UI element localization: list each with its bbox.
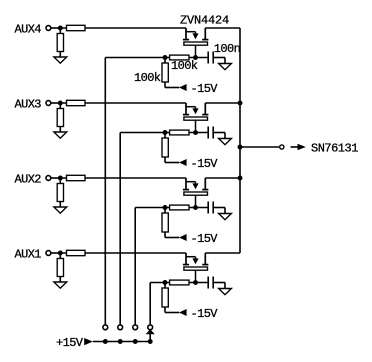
junction bus/Q2 drain bbox=[238, 101, 243, 106]
junction rail corner bbox=[148, 339, 153, 344]
wire bbox=[51, 252, 60, 254]
output terminal bbox=[280, 145, 284, 149]
power -15V arrow bbox=[179, 309, 187, 316]
wire control feed AUX3 bbox=[119, 133, 121, 325]
wire control feed AUX1 bbox=[149, 283, 151, 325]
junction AUX3 input node bbox=[58, 101, 63, 106]
capacitor C1 (gate 100n) bbox=[208, 52, 225, 64]
capacitor C4 (gate 100n) bbox=[208, 277, 225, 289]
junction gate-divider node bbox=[163, 130, 168, 135]
svg-text:100n: 100n bbox=[214, 42, 241, 56]
svg-text:100k: 100k bbox=[134, 71, 161, 85]
wire bbox=[205, 102, 240, 104]
junction AUX1 input node bbox=[58, 251, 63, 256]
wire bbox=[60, 102, 186, 104]
input terminal AUX2 bbox=[46, 176, 51, 181]
resistor R11 (gate 100k) bbox=[170, 130, 189, 135]
resistor R13 (gate 100k) bbox=[170, 205, 189, 210]
svg-text:SN76131: SN76131 bbox=[311, 141, 358, 155]
svg-text:AUX2: AUX2 bbox=[15, 173, 42, 187]
junction bus/output bbox=[238, 145, 243, 150]
junction bus/Q3 drain bbox=[238, 176, 243, 181]
wire bbox=[205, 252, 240, 254]
wire bbox=[60, 177, 186, 179]
wire bbox=[120, 132, 208, 134]
svg-text:AUX4: AUX4 bbox=[15, 23, 42, 37]
input terminal AUX1 bbox=[46, 251, 51, 256]
svg-text:AUX3: AUX3 bbox=[15, 98, 42, 112]
wire bbox=[135, 207, 208, 209]
svg-text:AUX1: AUX1 bbox=[15, 248, 42, 262]
resistor R2 (AUX4 shunt) bbox=[57, 28, 63, 57]
ground bbox=[219, 214, 232, 220]
resistor R7 (AUX1 series) bbox=[67, 250, 86, 255]
junction gate-divider node bbox=[163, 55, 168, 60]
ground bbox=[219, 139, 232, 145]
resistor R10 (pull 100k) bbox=[162, 58, 179, 88]
node AUX1 label bbox=[15, 248, 42, 262]
node SN76131 label bbox=[311, 141, 358, 155]
input terminal AUX4 bbox=[46, 26, 51, 31]
wire rail to AUX1 control plug bbox=[146, 329, 155, 341]
terminal control AUX1 bbox=[148, 325, 153, 330]
power -15V arrow bbox=[179, 159, 187, 166]
transistor Q3 (ZVN4424 N-MOSFET) bbox=[183, 178, 209, 208]
transistor Q4 (ZVN4424 N-MOSFET) bbox=[183, 253, 209, 283]
junction Q4 gate node bbox=[193, 280, 198, 285]
svg-text:+15V: +15V bbox=[56, 336, 84, 350]
resistor R6 (AUX2 shunt) bbox=[57, 178, 63, 207]
transistor Q1 label ZVN4424 bbox=[180, 14, 229, 28]
resistor R1 (AUX4 series) bbox=[67, 25, 86, 30]
junction Q2 gate node bbox=[193, 130, 198, 135]
resistor R4 (AUX3 shunt) bbox=[57, 103, 63, 132]
power -15V label bbox=[191, 232, 219, 246]
power +15V arrow bbox=[84, 338, 93, 345]
resistor R3 (AUX3 series) bbox=[67, 100, 86, 105]
wire +15V rail bbox=[93, 341, 150, 343]
ground bbox=[54, 57, 67, 63]
junction AUX4 input node bbox=[58, 26, 63, 31]
resistor R8 (AUX1 shunt) bbox=[57, 253, 63, 282]
wire bbox=[205, 27, 240, 29]
wire bbox=[51, 177, 60, 179]
wire control feed AUX4 bbox=[104, 58, 106, 325]
terminal control AUX2 bbox=[133, 325, 138, 330]
node AUX4 label bbox=[15, 23, 42, 37]
input terminal AUX3 bbox=[46, 101, 51, 106]
wire bbox=[205, 177, 240, 179]
node AUX2 label bbox=[15, 173, 42, 187]
ground bbox=[219, 64, 232, 70]
transistor Q2 (ZVN4424 N-MOSFET) bbox=[183, 103, 209, 133]
svg-text:ZVN4424: ZVN4424 bbox=[180, 14, 229, 28]
resistor R12 (pull 100k) bbox=[162, 133, 179, 163]
junction Q3 gate node bbox=[193, 205, 198, 210]
svg-text:-15V: -15V bbox=[191, 157, 219, 171]
capacitor C2 (gate 100n) bbox=[208, 127, 225, 139]
svg-text:-15V: -15V bbox=[191, 82, 219, 96]
resistor R10 value 100k bbox=[134, 71, 161, 85]
power +15V label bbox=[56, 336, 84, 350]
wire bbox=[150, 282, 208, 284]
resistor R14 (pull 100k) bbox=[162, 208, 179, 238]
junction rail/AUX2 feed bbox=[133, 339, 138, 344]
wire bbox=[51, 27, 60, 29]
resistor R16 (pull 100k) bbox=[162, 283, 179, 313]
svg-text:100k: 100k bbox=[171, 59, 198, 73]
svg-text:-15V: -15V bbox=[191, 307, 219, 321]
wire control feed AUX2 bbox=[134, 208, 136, 325]
ground bbox=[54, 132, 67, 138]
junction rail/AUX3 feed bbox=[118, 339, 123, 344]
power -15V label bbox=[191, 82, 219, 96]
power -15V label bbox=[191, 157, 219, 171]
junction gate-divider node bbox=[163, 280, 168, 285]
resistor R9 (gate 100k) bbox=[170, 55, 189, 60]
node AUX3 label bbox=[15, 98, 42, 112]
junction gate-divider node bbox=[163, 205, 168, 210]
junction Q1 gate node bbox=[193, 55, 198, 60]
output flow arrow bbox=[291, 144, 306, 150]
capacitor C1 value 100n bbox=[214, 42, 241, 56]
wire bbox=[60, 252, 186, 254]
wire bbox=[51, 102, 60, 104]
wire bbox=[60, 27, 186, 29]
ground bbox=[219, 289, 232, 295]
resistor R15 (gate 100k) bbox=[170, 280, 189, 285]
transistor Q1 (ZVN4424 N-MOSFET) bbox=[183, 28, 209, 58]
resistor R9 value 100k bbox=[171, 59, 198, 73]
ground bbox=[54, 207, 67, 213]
wire output bbox=[240, 146, 279, 148]
junction AUX2 input node bbox=[58, 176, 63, 181]
junction rail/AUX4 feed bbox=[103, 339, 108, 344]
capacitor C3 (gate 100n) bbox=[208, 202, 225, 214]
wire bbox=[105, 57, 208, 59]
resistor R5 (AUX2 series) bbox=[67, 175, 86, 180]
svg-text:-15V: -15V bbox=[191, 232, 219, 246]
wire output bus bbox=[239, 28, 241, 253]
terminal control AUX4 bbox=[103, 325, 108, 330]
power -15V label bbox=[191, 307, 219, 321]
terminal control AUX3 bbox=[118, 325, 123, 330]
ground bbox=[54, 282, 67, 288]
power -15V arrow bbox=[179, 234, 187, 241]
power -15V arrow bbox=[179, 84, 187, 91]
